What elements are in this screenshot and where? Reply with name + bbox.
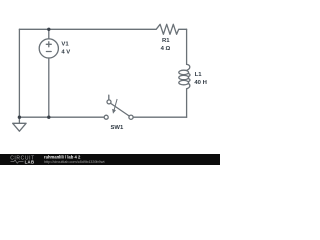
svg-text:V1: V1 (61, 42, 69, 48)
svg-text:rahmanlili / lab 4 2: rahmanlili / lab 4 2 (44, 154, 81, 159)
svg-text:L1: L1 (195, 72, 203, 78)
svg-text:4 V: 4 V (61, 49, 70, 55)
svg-text:R1: R1 (162, 38, 170, 44)
svg-text:SW1: SW1 (111, 125, 124, 131)
svg-text:4 Ω: 4 Ω (161, 46, 171, 52)
svg-text:http://circuitlab.com/c8d9b433: http://circuitlab.com/c8d9b4339b9wt (44, 160, 106, 164)
svg-text:LAB: LAB (25, 159, 35, 164)
svg-text:40 H: 40 H (194, 80, 206, 86)
